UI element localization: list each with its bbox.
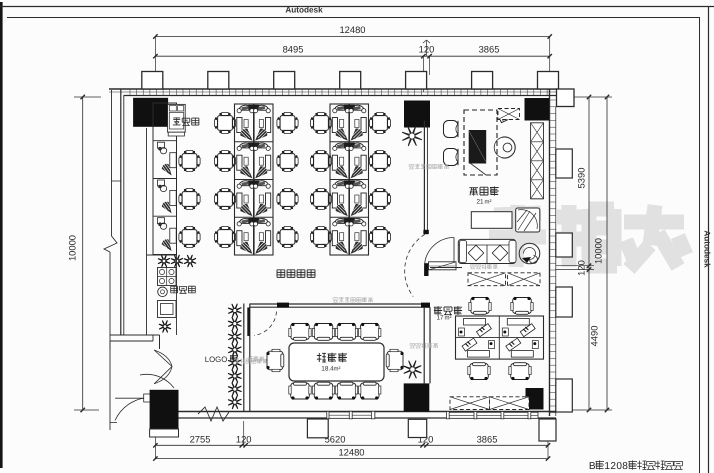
manager-finance wall line	[430, 267, 462, 269]
finance chair NE	[511, 297, 533, 314]
tea area circle fixture	[158, 287, 168, 297]
manager coffee table	[471, 212, 512, 229]
black column finance bottom-right	[526, 388, 544, 410]
plant 4	[228, 343, 241, 356]
left inner wall line	[146, 128, 148, 335]
desks row y=160.7	[332, 143, 366, 181]
manager room guest chair 1	[444, 121, 459, 138]
label copy area	[173, 117, 181, 125]
top curtain wall band with mullions	[109, 89, 557, 96]
right wall pier 4	[556, 379, 573, 412]
manager ac unit dashed	[498, 109, 520, 120]
chair-table at 287.5,237	[280, 230, 295, 245]
chair-table at 380,123	[373, 116, 388, 131]
top dimension line 12480	[153, 24, 552, 39]
right wall with window mullions	[550, 89, 556, 416]
exterior door arc bottom-left	[115, 398, 155, 421]
finance chair SE	[509, 363, 531, 380]
meeting table	[289, 343, 384, 381]
workstation spine bank at x=330	[330, 104, 369, 255]
bottom wall pier 2	[408, 419, 426, 437]
finance desk NE	[502, 319, 535, 337]
svg-text:Autodesk: Autodesk	[285, 6, 323, 15]
finance desk NW	[459, 319, 492, 337]
chair-table at 189.5,161	[182, 154, 197, 169]
chair-table at 189.5,199	[182, 192, 197, 207]
chair-table at 287.5,199	[280, 192, 295, 207]
watermark gray text	[489, 205, 686, 269]
manager desk black	[469, 130, 487, 175]
meeting room door dashed swing arc	[254, 312, 277, 336]
svg-text:3865: 3865	[479, 44, 500, 55]
tea area right boundary	[176, 255, 178, 335]
svg-text:m²: m²	[334, 366, 341, 373]
right wall pier 2	[556, 233, 573, 257]
desks row y=123	[332, 105, 366, 143]
meeting chair bottom 4	[359, 382, 381, 399]
manager room plant	[403, 127, 422, 146]
svg-text:8495: 8495	[283, 44, 304, 55]
svg-text:8: 8	[622, 461, 628, 472]
manager glass partition	[423, 121, 428, 235]
plant 5	[228, 357, 241, 370]
bottom dimension 2755/120/5620/120/3865	[153, 419, 550, 459]
meeting room glass partition	[250, 303, 430, 308]
manager swirl side table	[519, 243, 540, 264]
top wall pier 3	[274, 72, 295, 90]
desks row y=236.2	[332, 218, 366, 256]
svg-text:17: 17	[436, 315, 444, 322]
LOGO wall partition	[244, 304, 250, 412]
chair-table at 321,237	[314, 230, 329, 245]
chair-table at 321,161	[314, 154, 329, 169]
desks row y=160.7	[237, 143, 271, 181]
chair-table at 189.5,237	[182, 230, 197, 245]
lower-left wall band	[110, 335, 160, 349]
svg-text:4490: 4490	[589, 326, 600, 347]
svg-text:m²: m²	[485, 199, 492, 206]
chair-table at 380,161	[373, 154, 388, 169]
meeting chair top 4	[359, 323, 381, 340]
svg-text:3865: 3865	[477, 433, 498, 444]
black column top-middle	[404, 101, 430, 128]
svg-text:10000: 10000	[67, 235, 78, 261]
finance chair NW	[469, 297, 491, 314]
meeting room right wall	[424, 307, 430, 383]
public area label	[277, 270, 285, 278]
chair-table at 321,199	[314, 192, 329, 207]
inner door arc at entry	[140, 374, 174, 388]
chair-table at 225,237	[218, 230, 233, 245]
finance bottom cabinets	[450, 397, 529, 410]
meeting chair top 1	[289, 323, 311, 340]
chair-table at 321,123	[314, 116, 329, 131]
svg-text:120: 120	[576, 260, 587, 276]
manager executive chair	[494, 137, 515, 158]
svg-text:12480: 12480	[338, 447, 364, 458]
chair-table at 225,199	[218, 192, 233, 207]
tea area fans	[158, 255, 169, 266]
top wall pier 1	[142, 72, 163, 90]
black column top-left	[133, 98, 168, 127]
manager area label	[476, 199, 491, 206]
left dimension line 10000	[67, 95, 102, 412]
finance desk SE	[506, 338, 538, 357]
bottom dimension 12480	[153, 447, 550, 461]
right wall pier 3	[556, 287, 573, 317]
meeting chair top 3	[335, 323, 357, 340]
svg-text:B: B	[589, 461, 596, 472]
gray note stainless glass partition (manager)	[409, 164, 414, 169]
bottom wall pier 1	[307, 419, 328, 438]
gray note after logo label	[235, 359, 240, 364]
plant 8	[228, 396, 241, 409]
svg-text:5390: 5390	[576, 168, 587, 189]
meeting room label	[317, 353, 326, 362]
plant 2	[228, 317, 241, 330]
desks row y=198.5	[237, 180, 271, 218]
svg-text:12480: 12480	[339, 24, 365, 35]
chair-table at 225,161	[218, 154, 233, 169]
left exterior wall with break	[104, 90, 117, 350]
meeting room plant	[404, 361, 421, 378]
meeting room door leaf on logo wall	[247, 308, 250, 337]
left wall desk strip	[153, 103, 177, 255]
black column manager top-right	[525, 98, 550, 121]
finance desk SW	[462, 338, 494, 357]
manager room guest chair 2	[444, 149, 459, 166]
plant 7	[228, 383, 241, 396]
right wall pier 1	[556, 149, 573, 178]
plant 6	[228, 370, 241, 383]
meeting chair bottom 2	[312, 382, 334, 399]
top wall pier 7	[538, 72, 559, 90]
left desk cell y=140.7	[158, 142, 177, 177]
top wall pier 2	[208, 72, 229, 90]
top-right corner pier	[557, 89, 575, 107]
svg-text:21: 21	[476, 199, 484, 206]
bottom wall pier 3 (corner)	[539, 419, 556, 441]
tea area plant	[159, 321, 170, 332]
tea area sink unit	[158, 268, 177, 286]
bottom wall	[150, 412, 556, 419]
svg-text:2755: 2755	[190, 433, 211, 444]
desks row y=123	[237, 105, 271, 143]
label tea area	[171, 286, 178, 293]
finance area label	[436, 315, 451, 322]
manager phone	[497, 109, 512, 123]
chair-table at 287.5,161	[280, 154, 295, 169]
meeting chair bottom 1	[289, 382, 311, 399]
plant 1	[228, 304, 241, 317]
finance room label	[434, 306, 442, 315]
meeting chair left	[266, 349, 283, 371]
plant 3	[228, 330, 241, 343]
left wall double line	[111, 89, 124, 335]
entry bifold door	[154, 350, 172, 384]
top wall pier 6	[472, 72, 493, 90]
copier area machines	[168, 104, 186, 136]
top wall pier 5	[406, 72, 427, 90]
meeting chair top 2	[312, 323, 334, 340]
manager door leaf and arcs	[424, 237, 484, 277]
manager lounge chair	[516, 208, 540, 232]
chair-table at 225,123	[218, 116, 233, 131]
meeting room area label	[321, 366, 340, 373]
svg-text:18.4: 18.4	[321, 366, 334, 373]
svg-text:LOGO: LOGO	[205, 355, 228, 364]
manager executive desk (dashed zone)	[464, 110, 497, 175]
top dimension line 8495/120/3865	[153, 37, 552, 93]
gray note gypsum partition (left of finance)	[410, 343, 415, 348]
meeting chair bottom 3	[335, 382, 357, 399]
finance desk cluster	[456, 316, 544, 359]
manager room label	[469, 188, 478, 196]
top wall pier 4	[340, 72, 361, 90]
manager door solid arc	[425, 238, 455, 268]
break symbol bottom-left wall	[198, 407, 229, 421]
workstation spine bank at x=234.5	[235, 104, 274, 255]
bottom wall window below finance room	[446, 412, 538, 419]
manager door dashed swing arc	[405, 234, 425, 296]
svg-text:10000: 10000	[593, 238, 604, 264]
meeting chair right	[386, 349, 403, 371]
desks row y=198.5	[332, 180, 366, 218]
right dimension 5390/120/4490	[556, 95, 600, 412]
bottom wall window below meeting room	[327, 411, 375, 419]
gray note gypsum partition (logo wall)	[248, 356, 253, 361]
gray note gypsum partition top	[471, 265, 476, 269]
black column bottom-middle	[404, 383, 430, 411]
chair-table at 380,237	[373, 230, 388, 245]
chair-table at 287.5,123	[280, 116, 295, 131]
manager sofa	[458, 239, 516, 263]
chair-table at 380,199	[373, 192, 388, 207]
right dimension 10000	[556, 95, 612, 412]
tea area fridge	[158, 301, 177, 318]
finance chair SW	[468, 363, 490, 380]
left desk cell y=216.2	[158, 218, 177, 253]
desks row y=236.2	[237, 218, 271, 256]
left desk cell y=178.5	[158, 180, 177, 215]
manager bottom cabinets (x-hatched)	[468, 273, 540, 286]
svg-text:Autodesk: Autodesk	[703, 230, 712, 268]
svg-text:m²: m²	[445, 315, 452, 322]
gray note stainless glass partition (meeting)	[333, 298, 338, 303]
manager tv cabinet	[531, 123, 544, 199]
black column bottom-left with base	[150, 390, 179, 437]
LOGO wall label	[205, 355, 237, 364]
